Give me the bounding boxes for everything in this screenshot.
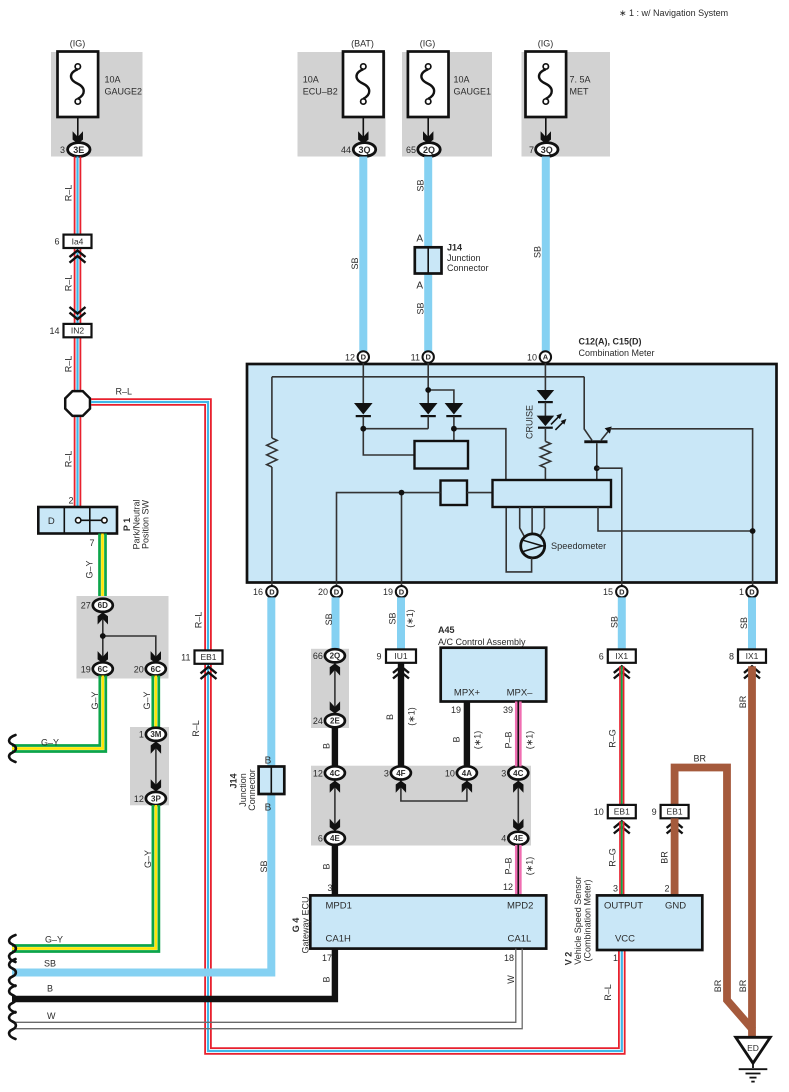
wire label (*1) bbox=[407, 707, 417, 726]
wire label BR bbox=[713, 979, 723, 992]
svg-text:4A: 4A bbox=[462, 769, 472, 778]
wire label SB bbox=[44, 959, 56, 969]
wire BR EB1 9 to V2 GND bbox=[671, 818, 679, 895]
gray junction block 3M/3P bbox=[130, 727, 169, 805]
gray junction block 6D/6C bbox=[77, 596, 169, 679]
pin A label bbox=[416, 234, 423, 245]
svg-text:W: W bbox=[506, 975, 516, 984]
connector 6 IX1 bbox=[599, 649, 636, 662]
svg-text:D: D bbox=[619, 587, 625, 596]
vehicle speed sensor V2 box bbox=[597, 895, 702, 950]
pin 7 label bbox=[89, 538, 94, 548]
svg-text:10: 10 bbox=[527, 353, 537, 363]
svg-text:4E: 4E bbox=[330, 834, 340, 843]
svg-text:MPD2: MPD2 bbox=[507, 901, 533, 912]
svg-text:12: 12 bbox=[503, 882, 513, 892]
meter internal top rail bbox=[272, 376, 584, 378]
meter pin 11 D bbox=[411, 351, 434, 362]
arrow down to 4E right bbox=[513, 819, 523, 831]
connector oval 4A pin 10 bbox=[445, 766, 477, 779]
svg-text:ECU–B2: ECU–B2 bbox=[303, 87, 338, 97]
svg-text:15: 15 bbox=[603, 587, 613, 597]
svg-text:27: 27 bbox=[81, 601, 91, 611]
svg-text:1: 1 bbox=[739, 587, 744, 597]
wire R-G EB1 to V2 OUTPUT bbox=[620, 821, 624, 895]
chevron arrows above IN2 bbox=[70, 307, 86, 319]
connector 9 EB1 bbox=[652, 805, 689, 818]
connector oval 6D pin 27 bbox=[81, 599, 113, 612]
pin 2 label bbox=[68, 496, 73, 506]
internal wire 4C to 4E right bbox=[517, 780, 519, 832]
chevron arrows below IX1 8 bbox=[744, 666, 760, 678]
svg-text:SB: SB bbox=[324, 613, 334, 625]
svg-text:10: 10 bbox=[445, 768, 455, 778]
svg-text:GND: GND bbox=[665, 901, 686, 912]
gray junction block 2Q/2E bbox=[311, 649, 349, 728]
meter title bbox=[579, 337, 655, 359]
connector oval 3Q pin 7 bbox=[529, 143, 558, 157]
svg-text:A: A bbox=[416, 234, 423, 245]
wire label SB bbox=[350, 257, 360, 269]
diode D1 lead and branch bbox=[363, 416, 428, 455]
pin 3 label bbox=[327, 883, 332, 893]
svg-text:B: B bbox=[385, 714, 395, 720]
fuse F2 symbol bbox=[343, 52, 384, 144]
svg-text:6: 6 bbox=[599, 652, 604, 662]
svg-text:SB: SB bbox=[259, 860, 269, 872]
arrow down to 3P bbox=[151, 779, 161, 791]
svg-text:Connector: Connector bbox=[447, 263, 489, 273]
wire B gateway CA1H to harness break bbox=[12, 949, 335, 999]
fuse F3 label (IG) bbox=[420, 39, 436, 49]
wire label R-L bbox=[64, 451, 74, 468]
connector oval 2Q pin 66 bbox=[313, 649, 345, 662]
svg-text:3: 3 bbox=[501, 768, 506, 778]
svg-text:3: 3 bbox=[327, 883, 332, 893]
harness break squiggle bbox=[9, 735, 16, 762]
svg-text:19: 19 bbox=[81, 664, 91, 674]
wire B IU1 to 4F bbox=[398, 663, 404, 766]
wire label (*1) bbox=[405, 609, 415, 628]
svg-text:SB: SB bbox=[388, 612, 398, 624]
svg-text:G–Y: G–Y bbox=[41, 738, 59, 748]
link U2 to U3 bbox=[467, 492, 493, 494]
svg-text:3P: 3P bbox=[151, 794, 161, 803]
wire label W bbox=[47, 1011, 56, 1021]
wires U3 to speedometer bbox=[520, 507, 545, 537]
pin A label bbox=[416, 281, 423, 292]
wire G-Y 3P to harness break bbox=[12, 805, 159, 952]
connector 14 IN2 bbox=[49, 324, 91, 337]
wire BR IX1 8 to ground bbox=[748, 666, 756, 1037]
wire label SB bbox=[739, 617, 749, 629]
wire label SB bbox=[388, 612, 398, 624]
svg-text:65: 65 bbox=[406, 145, 416, 155]
svg-text:10A: 10A bbox=[303, 75, 319, 85]
component name J14 Junction Connector bbox=[229, 769, 258, 811]
svg-text:D: D bbox=[399, 587, 405, 596]
svg-text:G–Y: G–Y bbox=[90, 691, 100, 709]
wire B 4E to gateway MPD1 bbox=[332, 845, 338, 895]
fuse F2 label (BAT) bbox=[351, 39, 374, 49]
wire Q1 to pin 1 rail bbox=[610, 429, 753, 586]
svg-text:∗ 1 : w/ Navigation System: ∗ 1 : w/ Navigation System bbox=[619, 8, 728, 18]
fuse F4 symbol bbox=[526, 52, 567, 144]
svg-text:3: 3 bbox=[613, 884, 618, 894]
wire label BR bbox=[738, 695, 748, 708]
internal wire 4C to 4E bbox=[334, 780, 336, 832]
pin 2 label bbox=[664, 884, 669, 894]
svg-text:11: 11 bbox=[181, 653, 190, 663]
svg-text:4E: 4E bbox=[513, 834, 523, 843]
meter pin10 lead bbox=[544, 363, 546, 391]
svg-text:BR: BR bbox=[660, 851, 670, 864]
wire label (*1) bbox=[525, 857, 535, 876]
svg-text:2E: 2E bbox=[330, 717, 340, 726]
svg-text:2Q: 2Q bbox=[330, 652, 341, 661]
svg-text:66: 66 bbox=[313, 651, 323, 661]
wire label BR bbox=[660, 851, 670, 864]
svg-text:G–Y: G–Y bbox=[45, 935, 63, 945]
svg-text:R–L: R–L bbox=[64, 185, 74, 202]
svg-text:(∗1): (∗1) bbox=[525, 731, 535, 750]
wire label (*1) bbox=[473, 731, 483, 750]
connector oval 6C pin 19 bbox=[81, 662, 113, 675]
connector 6 Ia4 bbox=[54, 235, 91, 248]
connector oval 3P pin 12 bbox=[134, 792, 166, 805]
svg-text:(∗1): (∗1) bbox=[473, 731, 483, 750]
harness break squiggle bbox=[9, 959, 16, 986]
arrow down to 6C pin19 bbox=[98, 651, 108, 663]
svg-text:B: B bbox=[322, 863, 332, 869]
chevron arrows below EB1 10 bbox=[614, 821, 630, 833]
internal wire 3M to 3P bbox=[155, 741, 157, 792]
connector oval 2E pin 24 bbox=[313, 714, 345, 727]
fuse F3 symbol bbox=[408, 52, 449, 144]
junction dot bbox=[399, 490, 405, 496]
wire label SB bbox=[610, 616, 620, 628]
svg-text:Speedometer: Speedometer bbox=[551, 541, 606, 551]
svg-text:6C: 6C bbox=[151, 665, 161, 674]
svg-text:R–L: R–L bbox=[603, 984, 613, 1001]
svg-text:B: B bbox=[47, 984, 53, 994]
svg-text:SB: SB bbox=[416, 302, 426, 314]
svg-text:R–L: R–L bbox=[191, 720, 201, 737]
A/C control assembly A45 box bbox=[441, 648, 547, 702]
svg-text:39: 39 bbox=[503, 705, 513, 715]
fuse F3 value label bbox=[454, 75, 492, 97]
wire B A45 MPX+ to 4A bbox=[464, 702, 470, 767]
svg-text:MPX+: MPX+ bbox=[454, 688, 481, 699]
svg-text:(∗1): (∗1) bbox=[525, 857, 535, 876]
pin 18 label bbox=[504, 953, 514, 963]
connector oval 4F pin 3 bbox=[384, 766, 411, 779]
wire label B bbox=[47, 984, 53, 994]
svg-text:7. 5A: 7. 5A bbox=[570, 75, 591, 85]
wire G-Y 6C pin19 to harness break bbox=[12, 676, 106, 752]
harness break squiggle bbox=[9, 1012, 16, 1039]
meter pin 12 D bbox=[345, 351, 369, 362]
component name V 2 Vehicle Speed Sensor bbox=[564, 876, 593, 965]
fuse F4 value label bbox=[570, 75, 591, 97]
wire label (*1) bbox=[525, 731, 535, 750]
svg-text:12: 12 bbox=[345, 353, 355, 363]
connector oval 4C pin 12 bbox=[313, 766, 345, 779]
svg-text:19: 19 bbox=[383, 587, 393, 597]
wire R-G IX1 to EB1 10 bbox=[620, 666, 624, 805]
svg-text:W: W bbox=[47, 1011, 56, 1021]
svg-text:SB: SB bbox=[610, 616, 620, 628]
meter pin 15 D bbox=[603, 586, 628, 597]
svg-text:SB: SB bbox=[416, 179, 426, 191]
wire G-Y 6C pin20 to 3M bbox=[153, 676, 159, 728]
speedometer symbol bbox=[521, 534, 546, 558]
wire SB fuse F2 to meter pin 12 bbox=[359, 157, 367, 352]
svg-text:9: 9 bbox=[376, 652, 381, 662]
junction connector J14 B bbox=[259, 767, 285, 795]
svg-text:CA1H: CA1H bbox=[326, 934, 351, 945]
svg-text:10A: 10A bbox=[454, 75, 470, 85]
meter pin 16 D bbox=[253, 586, 278, 597]
meter internal box U3 driver bbox=[493, 480, 612, 507]
svg-text:20: 20 bbox=[134, 664, 144, 674]
wire label R-L bbox=[191, 720, 201, 737]
wire label SB bbox=[324, 613, 334, 625]
connector 9 IU1 bbox=[376, 649, 416, 662]
connector oval 6C pin 20 bbox=[134, 662, 166, 675]
LED CRUISE indicator bbox=[537, 416, 555, 428]
svg-text:D: D bbox=[269, 587, 275, 596]
svg-text:1: 1 bbox=[139, 730, 144, 740]
svg-text:P–B: P–B bbox=[504, 857, 514, 874]
wire label BR bbox=[694, 754, 707, 764]
connector oval 2Q pin 65 bbox=[406, 143, 440, 157]
wire label R-L bbox=[603, 984, 613, 1001]
svg-text:A: A bbox=[543, 353, 549, 362]
meter internal box U1 bbox=[415, 441, 469, 469]
diode D4 bbox=[537, 390, 555, 402]
wire label R-L bbox=[64, 185, 74, 202]
svg-text:3: 3 bbox=[384, 768, 389, 778]
fuse F4 7.5A MET gray block bbox=[522, 52, 611, 157]
meter internal box U2 small bbox=[441, 481, 468, 506]
svg-text:(∗1): (∗1) bbox=[405, 609, 415, 628]
svg-text:1: 1 bbox=[613, 953, 618, 963]
svg-text:MET: MET bbox=[570, 87, 590, 97]
fuse F3 10A GAUGE1 gray block bbox=[402, 52, 492, 157]
connector 8 IX1 bbox=[729, 649, 766, 662]
svg-text:B: B bbox=[322, 976, 332, 982]
connector oval 4C pin 3 bbox=[501, 766, 528, 779]
junction dot bbox=[425, 387, 431, 393]
arrow up to 3M bbox=[151, 742, 161, 754]
wire W gateway CA1L to harness break bbox=[12, 949, 522, 1029]
V2 pin names bbox=[604, 901, 686, 945]
wire label G-Y bbox=[85, 560, 95, 578]
diode D3 lead and branch bbox=[454, 416, 506, 480]
wire label BR bbox=[738, 979, 748, 992]
junction dot bbox=[100, 633, 106, 639]
svg-text:ED: ED bbox=[747, 1043, 759, 1053]
fuse F1 label (IG) bbox=[70, 39, 86, 49]
lead D4 to LED bbox=[544, 402, 546, 416]
svg-text:4F: 4F bbox=[396, 769, 405, 778]
wire R-L octagon to EB1 to V2 VCC bbox=[91, 399, 625, 1054]
wire U2 to pins 20/19 bbox=[337, 493, 441, 586]
svg-text:R–G: R–G bbox=[608, 729, 618, 748]
svg-text:D: D bbox=[334, 587, 340, 596]
transistor Q1 bbox=[584, 377, 612, 480]
gateway pin names bbox=[326, 901, 534, 945]
svg-text:18: 18 bbox=[504, 953, 514, 963]
A45 title bbox=[438, 625, 526, 647]
svg-text:A45: A45 bbox=[438, 625, 455, 635]
svg-text:GAUGE2: GAUGE2 bbox=[105, 87, 143, 97]
gateway ECU G4 box bbox=[310, 895, 546, 948]
fuse F2 10A ECU-B2 gray block bbox=[298, 52, 386, 157]
chevron arrows below IX1 6 bbox=[614, 666, 630, 678]
internal wire 4F to 4A bbox=[401, 781, 467, 802]
svg-text:G–Y: G–Y bbox=[143, 850, 153, 868]
internal wire 6D to 6C pair bbox=[103, 612, 156, 665]
arrow up to 4F bbox=[396, 781, 406, 793]
svg-text:BR: BR bbox=[738, 695, 748, 708]
svg-text:7: 7 bbox=[89, 538, 94, 548]
svg-text:10A: 10A bbox=[105, 75, 121, 85]
svg-text:D: D bbox=[749, 587, 755, 596]
wire label B bbox=[452, 736, 462, 742]
svg-text:(IG): (IG) bbox=[538, 39, 554, 49]
svg-text:D: D bbox=[425, 353, 431, 362]
switch P1 Park/Neutral Position SW box bbox=[38, 507, 117, 534]
wire U3 to pin1 rail bbox=[598, 507, 753, 531]
svg-text:D: D bbox=[48, 516, 55, 527]
wire label G-Y bbox=[90, 691, 100, 709]
wire label SB bbox=[532, 246, 542, 258]
harness break squiggle bbox=[9, 935, 16, 962]
svg-text:R–L: R–L bbox=[194, 612, 204, 629]
wire label R-L bbox=[64, 275, 74, 292]
svg-text:A/C Control Assembly: A/C Control Assembly bbox=[438, 637, 526, 647]
svg-text:Combination Meter: Combination Meter bbox=[579, 348, 655, 358]
wire SB fuse F4 to meter pin 10 bbox=[542, 157, 550, 352]
svg-text:44: 44 bbox=[341, 145, 351, 155]
svg-text:(BAT): (BAT) bbox=[351, 39, 374, 49]
svg-text:MPX–: MPX– bbox=[507, 688, 534, 699]
junction dot bbox=[750, 528, 756, 534]
svg-text:R–L: R–L bbox=[64, 275, 74, 292]
component name J14 Junction Connector bbox=[447, 243, 489, 273]
wire label P-B bbox=[504, 731, 514, 748]
junction dot bbox=[451, 426, 457, 432]
chevron arrows below EB1 11 bbox=[201, 667, 217, 679]
svg-text:24: 24 bbox=[313, 716, 323, 726]
wire BR loop EB1 9 to ground bbox=[675, 768, 753, 1031]
svg-text:Junction: Junction bbox=[447, 253, 481, 263]
wire label P-B bbox=[504, 857, 514, 874]
svg-text:EB1: EB1 bbox=[200, 652, 216, 662]
svg-text:MPD1: MPD1 bbox=[326, 901, 352, 912]
svg-text:Gateway ECU: Gateway ECU bbox=[300, 896, 310, 953]
svg-text:BR: BR bbox=[694, 754, 707, 764]
svg-text:J14: J14 bbox=[447, 243, 462, 253]
meter pin 19 D bbox=[383, 586, 407, 597]
wire SB fuse F3 to meter pin 11 bbox=[424, 157, 432, 352]
wire label G-Y bbox=[142, 691, 152, 709]
fuse F2 value label bbox=[303, 75, 338, 97]
fuse F1 value label bbox=[105, 75, 143, 97]
wire SB meter pin19 to IU1 bbox=[397, 597, 405, 648]
chevron arrows below EB1 9 bbox=[667, 821, 683, 833]
arrow up to 2Q bbox=[330, 663, 340, 675]
meter internal resistor R2 bbox=[540, 429, 550, 480]
chevron arrows below IU1 bbox=[393, 666, 409, 678]
component name G 4 Gateway ECU bbox=[291, 896, 310, 953]
svg-text:G–Y: G–Y bbox=[142, 691, 152, 709]
svg-text:4C: 4C bbox=[513, 769, 523, 778]
pin B label bbox=[265, 756, 272, 767]
svg-text:8: 8 bbox=[729, 652, 734, 662]
wire P-B A45 MPX- to 4C bbox=[516, 702, 520, 767]
arrow down to 2E bbox=[330, 701, 340, 713]
svg-text:B: B bbox=[265, 803, 272, 814]
svg-text:6: 6 bbox=[54, 237, 59, 247]
svg-text:3: 3 bbox=[60, 145, 65, 155]
svg-text:B: B bbox=[322, 743, 332, 749]
wire label B bbox=[385, 714, 395, 720]
svg-text:10: 10 bbox=[594, 807, 604, 817]
chevron arrows below Ia4 bbox=[70, 251, 86, 263]
LED arrows bbox=[551, 413, 566, 430]
meter pin 10 A bbox=[527, 351, 551, 362]
connector oval 4E pin 6 bbox=[318, 832, 345, 845]
wire label SB bbox=[416, 302, 426, 314]
wire label G-Y bbox=[143, 850, 153, 868]
svg-text:R–L: R–L bbox=[64, 451, 74, 468]
svg-text:3M: 3M bbox=[150, 730, 161, 739]
pin B label bbox=[265, 803, 272, 814]
octagon splice node bbox=[65, 391, 90, 416]
wire SB meter pin16 to harness break bbox=[12, 597, 271, 972]
arrow down to 4E bbox=[330, 819, 340, 831]
wire label R-L bbox=[116, 387, 133, 397]
diode D2 bbox=[419, 403, 438, 416]
pin 19 label bbox=[451, 705, 461, 715]
svg-text:CRUISE: CRUISE bbox=[525, 405, 535, 439]
wire label B bbox=[322, 863, 332, 869]
branch pin11 to D3 bbox=[428, 390, 454, 404]
fuse F4 label (IG) bbox=[538, 39, 554, 49]
wire label B bbox=[322, 976, 332, 982]
connector oval 3E pin 3 bbox=[60, 143, 90, 157]
svg-text:20: 20 bbox=[318, 587, 328, 597]
svg-text:Connector: Connector bbox=[247, 769, 257, 811]
svg-text:2: 2 bbox=[664, 884, 669, 894]
svg-text:4: 4 bbox=[501, 834, 506, 844]
pin 12 label bbox=[503, 882, 513, 892]
connector 11 EB1 bbox=[181, 650, 222, 663]
svg-text:3Q: 3Q bbox=[541, 145, 553, 155]
svg-text:11: 11 bbox=[411, 353, 420, 363]
meter internal resistor R1 bbox=[267, 377, 277, 586]
gray junction block 4C/4F/4A/4C/4E/4E bbox=[311, 766, 531, 846]
svg-text:C12(A), C15(D): C12(A), C15(D) bbox=[579, 337, 642, 347]
svg-text:EB1: EB1 bbox=[667, 807, 683, 817]
svg-text:OUTPUT: OUTPUT bbox=[604, 901, 643, 912]
svg-text:IX1: IX1 bbox=[615, 651, 628, 661]
connector oval 3Q pin 44 bbox=[341, 143, 376, 157]
switch P1 contacts bbox=[76, 518, 108, 523]
